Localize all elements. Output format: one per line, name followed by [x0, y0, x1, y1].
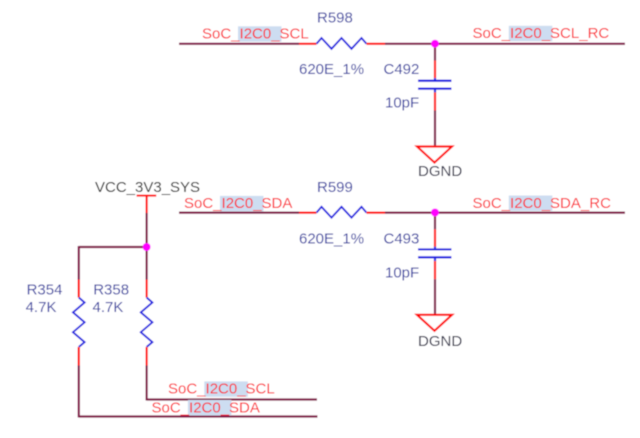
net alias highlight I2C0_ (top SCL label)	[238, 26, 282, 41]
capacitor C493 top pin	[434, 229, 436, 247]
junction node pullup branch	[143, 243, 151, 251]
capacitor C492 plates	[418, 80, 452, 82]
wire SoC_I2C0_SDA (left segment, middle row)	[179, 212, 299, 214]
svg-text:R354: R354	[27, 282, 63, 299]
wire junction to C493	[434, 214, 436, 230]
wire down to R354	[78, 246, 80, 280]
resistor R358 bottom pin	[146, 347, 148, 366]
svg-text:SoC_I2C0_SCL: SoC_I2C0_SCL	[168, 381, 275, 398]
svg-text:4.7K: 4.7K	[26, 299, 57, 316]
power VCC pin (red stem)	[146, 195, 148, 213]
svg-text:620E_1%: 620E_1%	[299, 61, 364, 78]
svg-text:R358: R358	[93, 282, 129, 299]
svg-text:DGND: DGND	[418, 333, 462, 350]
capacitor C493 bottom pin	[434, 261, 436, 279]
svg-text:SoC_I2C0_SCL_RC: SoC_I2C0_SCL_RC	[473, 25, 610, 42]
svg-text:10pF: 10pF	[385, 264, 419, 281]
wire bottom SCL rail	[147, 398, 317, 400]
svg-text:620E_1%: 620E_1%	[299, 231, 364, 248]
svg-text:10pF: 10pF	[385, 95, 419, 112]
svg-text:4.7K: 4.7K	[93, 299, 124, 316]
resistor R358 zigzag body	[141, 298, 153, 348]
power VCC_3V3_SYS bar symbol	[137, 195, 157, 197]
svg-text:SoC_I2C0_SDA: SoC_I2C0_SDA	[152, 399, 260, 416]
svg-text:C493: C493	[384, 231, 420, 248]
wire junction down to R358	[146, 247, 148, 280]
net alias highlight I2C0_ (bottom SDA label)	[188, 400, 232, 415]
net alias highlight I2C0_ (SDA label)	[220, 196, 264, 211]
net alias highlight I2C0_ (bottom SCL label)	[204, 381, 248, 396]
capacitor C493 plates	[418, 248, 452, 250]
wire SoC_I2C0_SCL (left segment, top row)	[179, 43, 299, 45]
wire C493 to DGND	[434, 279, 436, 314]
wire SoC_I2C0_SCL_RC (right segment, top row)	[385, 43, 625, 45]
ground DGND symbol (middle)	[417, 315, 452, 331]
wire branch left to R354	[79, 246, 147, 248]
capacitor C492 top pin stub	[434, 78, 436, 81]
svg-text:DGND: DGND	[418, 163, 462, 180]
resistor R354 bottom pin	[78, 347, 80, 366]
svg-text:SoC_I2C0_SDA: SoC_I2C0_SDA	[184, 195, 292, 212]
wire bottom SDA rail	[79, 415, 318, 417]
svg-text:C492: C492	[384, 61, 420, 78]
resistor R358 top pin	[146, 280, 148, 298]
wire R354 to bottom SDA rail	[78, 366, 80, 418]
net alias highlight I2C0_ (SCL_RC label)	[509, 26, 553, 41]
net alias highlight I2C0_ (SDA_RC label)	[509, 196, 553, 211]
resistor R599 right pin	[367, 212, 386, 214]
resistor R354 zigzag body	[73, 298, 85, 348]
resistor R599 left pin	[299, 212, 317, 214]
capacitor C492 bottom pin	[434, 92, 436, 110]
resistor R598 zigzag body	[317, 38, 367, 49]
resistor R598 left pin	[299, 43, 317, 45]
wire junction to C492	[434, 45, 436, 61]
wire C492 to DGND	[434, 111, 436, 147]
capacitor C493 top pin stub	[434, 247, 436, 250]
wire R358 to bottom SCL rail	[146, 366, 148, 401]
junction node top (SCL/C492)	[431, 40, 439, 48]
svg-text:SoC_I2C0_SCL: SoC_I2C0_SCL	[202, 26, 309, 43]
junction node middle (SDA/C493)	[431, 209, 439, 217]
svg-text:R599: R599	[317, 179, 353, 196]
resistor R598 right pin	[367, 43, 386, 45]
wire SoC_I2C0_SDA_RC (right segment, middle row)	[385, 212, 625, 214]
capacitor C492 bottom pin stub	[434, 89, 436, 93]
resistor R354 top pin	[78, 280, 80, 298]
capacitor C492 top pin	[434, 61, 436, 79]
wire VCC stem to junction	[146, 213, 148, 247]
resistor R599 zigzag body	[317, 207, 367, 218]
svg-text:R598: R598	[317, 9, 353, 26]
ground DGND symbol (top)	[417, 147, 452, 163]
svg-text:VCC_3V3_SYS: VCC_3V3_SYS	[95, 179, 200, 196]
capacitor C493 bottom pin stub	[434, 258, 436, 262]
svg-text:SoC_I2C0_SDA_RC: SoC_I2C0_SDA_RC	[473, 195, 612, 212]
